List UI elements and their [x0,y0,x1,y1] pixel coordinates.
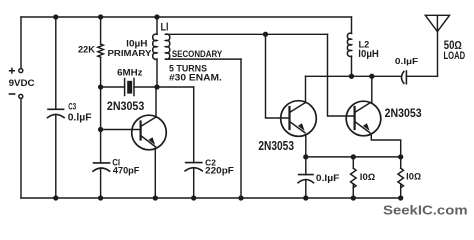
node bottom C3 [53,195,58,200]
svg-text:9VDC: 9VDC [9,78,35,89]
node emitter rail right [398,154,403,159]
svg-text:470pF: 470pF [113,165,140,175]
wire collector node [306,75,401,77]
node crystal left [98,84,103,89]
antenna [425,15,449,31]
wire bottom rail [21,197,401,199]
wire Q2 collector [305,76,307,102]
svg-text:SECONDARY: SECONDARY [172,49,223,60]
capacitor C5 0.1uF bypass [305,157,307,175]
transistor Q3 2N3053 [346,101,381,136]
node Q3 collector [369,74,374,79]
wire left rail upper [20,17,22,68]
svg-text:2N3053: 2N3053 [385,106,422,120]
svg-text:PRIMARY: PRIMARY [108,49,153,58]
battery - symbol [10,93,15,95]
wire crystal line [101,86,125,88]
svg-text:22K: 22K [78,45,95,55]
svg-text:2N3053: 2N3053 [107,99,144,113]
wire Q2 base drop [266,34,290,118]
svg-text:SeekIC.com: SeekIC.com [383,203,468,218]
node top C3 [53,14,58,19]
resistor R1 22K [100,17,102,44]
node crystal right [154,84,159,89]
node emitter rail mid [351,154,356,159]
capacitor C2 [193,87,195,163]
inductor L1 primary [156,17,158,34]
node bottom R2 [351,195,356,200]
node L2 bottom [349,74,354,79]
node Q1 base [98,127,103,132]
svg-text:l0µH: l0µH [358,49,379,60]
wire antenna drop [437,32,439,77]
wire Q1 base [101,129,141,131]
node bottom R3 [398,195,403,200]
wire emitter rail [306,156,401,158]
wire Q3 emitter jog [371,135,400,157]
node bottom C1 [98,195,103,200]
inductor L2 [351,17,353,33]
node top L1 [154,14,159,19]
capacitor C3 [55,17,57,109]
wire left rail lower [20,99,22,198]
node bottom secondary return [238,195,243,200]
node secondary top [263,32,268,37]
wire Q2 emitter [305,135,307,157]
resistor R3 10ohm [400,157,402,168]
node bottom C2 [191,195,196,200]
svg-text:0.lµF: 0.lµF [68,112,92,123]
resistor R2 10ohm [352,157,354,168]
svg-text:C3: C3 [68,101,76,112]
node top 22K [98,14,103,19]
node bottom C5 [303,195,308,200]
node emitter rail left [303,154,308,159]
wire secondary top [166,33,328,35]
wire Q3 base drop [328,34,355,116]
wire secondary bottom [166,58,242,60]
capacitor C1 [94,162,110,164]
battery - terminal [19,94,23,98]
svg-text:220pF: 220pF [205,166,234,176]
svg-text:6MHz: 6MHz [117,67,143,77]
transistor Q2 2N3053 [281,101,317,137]
transistor Q1 2N3053 [132,115,167,150]
battery + symbol [10,68,15,73]
crystal Y1 6MHz [124,79,126,96]
svg-text:LOAD: LOAD [444,50,466,62]
svg-text:2N3053: 2N3053 [258,138,294,153]
svg-text:#30 ENAM.: #30 ENAM. [169,72,222,82]
svg-text:l0Ω: l0Ω [360,172,375,182]
battery + terminal [19,69,23,73]
svg-text:l0Ω: l0Ω [406,171,421,181]
svg-text:l0µH: l0µH [126,38,147,48]
node bottom Q1 emitter [153,195,158,200]
svg-text:0.lµF: 0.lµF [316,172,340,183]
svg-text:Ll: Ll [161,22,169,34]
wire Q3 collector [371,76,373,102]
inductor L1 secondary [166,34,170,59]
capacitor C4 0.1uF output [402,72,404,84]
wire top rail [21,16,352,18]
svg-text:0.lµF: 0.lµF [395,56,418,66]
